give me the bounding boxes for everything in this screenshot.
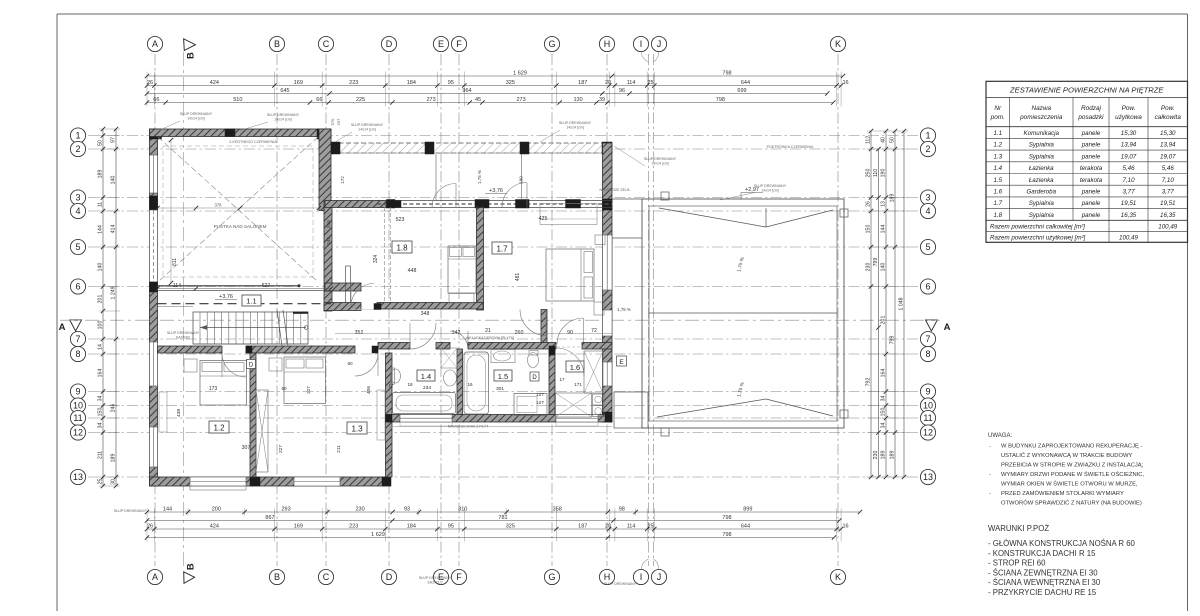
bedside table room 1.7	[594, 235, 605, 315]
wardrobe garderoba 1.6 bottom	[556, 393, 592, 417]
svg-text:189: 189	[111, 454, 117, 463]
pustka label text	[214, 224, 267, 229]
svg-text:-: -	[989, 444, 991, 450]
wall: top wall of left section	[150, 129, 332, 137]
svg-text:244: 244	[326, 237, 331, 245]
axis 2 horizontal grid line	[88, 148, 921, 150]
stairs: break line	[277, 310, 288, 346]
svg-text:50: 50	[98, 140, 104, 146]
svg-text:899: 899	[743, 506, 752, 512]
svg-text:C: C	[323, 572, 330, 582]
svg-text:425: 425	[539, 216, 548, 222]
garage downspout square bottom-left	[661, 428, 669, 436]
left vertical dimension chain 2	[111, 127, 119, 488]
svg-text:14: 14	[98, 344, 104, 350]
svg-text:1 048: 1 048	[899, 297, 905, 310]
svg-text:7: 7	[75, 334, 80, 344]
svg-text:180: 180	[519, 176, 524, 184]
room label 1.4	[417, 370, 435, 381]
svg-text:- KONSTRUKCJA DACHI R 15: - KONSTRUKCJA DACHI R 15	[988, 549, 1096, 558]
top dimension row 3	[145, 88, 830, 96]
svg-text:2: 2	[925, 144, 930, 154]
bottom dimension row 1	[145, 506, 862, 514]
garage roof top slope	[659, 208, 833, 227]
svg-text:- GŁÓWNA KONSTRUKCJA NOŚNA R 6: - GŁÓWNA KONSTRUKCJA NOŚNA R 60	[988, 539, 1136, 548]
svg-text:200: 200	[212, 506, 221, 512]
svg-text:189: 189	[890, 194, 896, 203]
svg-text:100: 100	[98, 321, 104, 330]
svg-text:- ŚCIANA ZEWNĘTRZNA EI 30: - ŚCIANA ZEWNĘTRZNA EI 30	[988, 568, 1098, 577]
room label 1.3	[347, 422, 367, 434]
svg-text:SŁUP DREWNIANY: SŁUP DREWNIANY	[167, 331, 200, 335]
marker D room 1.2 wall	[247, 360, 256, 369]
interior dim texts rooms 1.2 1.3	[176, 361, 372, 453]
svg-text:PUSTKA NAD SALONEM: PUSTKA NAD SALONEM	[214, 224, 267, 229]
notes WARUNKI P.POZ block	[988, 524, 1136, 597]
column block north band at 516	[516, 200, 530, 209]
svg-text:230: 230	[873, 451, 879, 460]
axis bubble E top	[433, 36, 448, 51]
svg-text:20: 20	[605, 80, 611, 86]
svg-text:358: 358	[553, 506, 562, 512]
svg-text:6: 6	[925, 282, 930, 292]
strip rotated labels	[340, 170, 524, 184]
svg-text:A: A	[944, 322, 951, 333]
svg-text:169: 169	[294, 523, 303, 529]
svg-text:13,94: 13,94	[1121, 142, 1137, 149]
svg-text:438: 438	[176, 409, 182, 417]
svg-text:1.8: 1.8	[993, 212, 1002, 219]
svg-text:Łazienka: Łazienka	[1029, 165, 1054, 172]
svg-text:Łazienka: Łazienka	[1029, 177, 1054, 184]
svg-text:187: 187	[578, 523, 587, 529]
column block divider 1.8/1.7 top	[477, 201, 483, 208]
axis 12 horizontal grid line	[88, 432, 921, 434]
svg-text:127: 127	[536, 400, 544, 406]
svg-text:7,10: 7,10	[1162, 177, 1175, 184]
svg-text:26: 26	[147, 523, 153, 529]
svg-text:1.6: 1.6	[993, 189, 1002, 196]
svg-text:14x14 [cm]: 14x14 [cm]	[566, 126, 584, 130]
column block east wall bottom corner	[603, 412, 613, 422]
svg-text:19,07: 19,07	[1160, 153, 1176, 160]
svg-text:50: 50	[890, 137, 896, 143]
svg-text:515: 515	[326, 220, 331, 228]
axis 8 horizontal grid line	[88, 353, 921, 355]
window: bath 1.5 bottom	[556, 415, 598, 427]
svg-text:WYMIARY DRZWI PODANE W ŚWIETLE: WYMIARY DRZWI PODANE W ŚWIETLE OŚCIEŻNIC…	[1001, 470, 1144, 478]
label +3,76 middle section	[485, 188, 507, 194]
svg-text:11: 11	[73, 413, 82, 423]
pustka interior vertical dim line	[169, 138, 173, 285]
svg-text:1.4: 1.4	[421, 372, 431, 381]
eaves line below bathroom wing	[388, 426, 612, 428]
axis bubble B bottom	[269, 569, 284, 584]
svg-text:Sypialnia: Sypialnia	[1029, 153, 1055, 160]
svg-text:144: 144	[98, 225, 104, 234]
window sill below room 1.2 window	[190, 486, 246, 490]
axis bubble F bottom	[451, 569, 466, 584]
svg-text:230: 230	[355, 506, 364, 512]
axis bubble 10 right	[920, 398, 935, 413]
svg-text:I: I	[640, 572, 643, 582]
svg-text:9: 9	[75, 387, 80, 397]
svg-text:378: 378	[215, 203, 223, 208]
svg-text:171: 171	[574, 382, 582, 387]
svg-text:140: 140	[111, 176, 117, 185]
svg-text:110: 110	[873, 169, 879, 177]
left vertical dimension chain 1	[98, 127, 106, 488]
bottom dimension row 2	[145, 515, 842, 523]
toilet bath 1.4	[391, 368, 401, 384]
svg-text:I: I	[640, 39, 643, 49]
leader curves I J bottom	[641, 559, 658, 569]
extension lines bottom dimension band	[147, 509, 841, 542]
axis 9 horizontal grid line	[88, 391, 921, 393]
svg-text:13: 13	[73, 472, 83, 482]
svg-text:B: B	[186, 563, 197, 570]
washbasin bath 1.5	[491, 350, 515, 363]
svg-text:WYMIAR OKIEN W ŚWIETLE OTWORU: WYMIAR OKIEN W ŚWIETLE OTWORU W MURZE,	[1001, 480, 1138, 488]
axis C vertical grid line	[325, 54, 327, 566]
svg-text:D: D	[532, 375, 537, 381]
svg-text:8: 8	[925, 349, 930, 359]
svg-text:19,07: 19,07	[1121, 153, 1137, 160]
svg-text:PRZEBICIA W STROPIE W ZWIĄZKU: PRZEBICIA W STROPIE W ZWIĄZKU Z INSTALAC…	[1001, 463, 1144, 469]
svg-text:201: 201	[98, 295, 104, 304]
svg-text:325: 325	[506, 80, 515, 86]
svg-text:SA2/S1/2: SA2/S1/2	[427, 581, 442, 585]
svg-text:60: 60	[347, 361, 353, 366]
svg-text:127: 127	[536, 392, 544, 398]
svg-text:1 249: 1 249	[111, 286, 117, 299]
svg-text:WARUNKI P.POŻ: WARUNKI P.POŻ	[988, 524, 1049, 533]
area table: ZESTAWIENIE POWIERZCHNI NA PIETRZE	[986, 81, 1188, 242]
svg-text:Garderoba: Garderoba	[1026, 189, 1056, 196]
desk room 1.3 east wall	[377, 390, 385, 440]
wall: glazed north band of middle section (dashed curtain wall)	[331, 143, 612, 153]
svg-text:E: E	[619, 359, 624, 366]
column block east wall axis 3-4	[603, 199, 613, 210]
column block corridor wall at 1.3 door	[372, 346, 378, 353]
axis bubble G bottom	[544, 569, 559, 584]
radiator room 1.2 west wall	[159, 392, 167, 432]
svg-text:1,75 %: 1,75 %	[617, 307, 631, 312]
wall: divider rooms 1.2 / 1.3	[250, 353, 256, 477]
svg-text:10: 10	[923, 401, 933, 411]
pustka diagonal cross line 1	[158, 137, 318, 282]
window: bottom wall room 1.3	[294, 477, 340, 486]
svg-text:pom.: pom.	[990, 114, 1005, 121]
svg-text:18: 18	[407, 382, 413, 387]
svg-text:J: J	[657, 39, 662, 49]
garage roof inner rect	[649, 206, 837, 421]
svg-text:811: 811	[172, 258, 178, 266]
axis bubble 2 right	[920, 141, 935, 156]
svg-text:273: 273	[516, 97, 525, 103]
room label 1.1	[242, 295, 261, 306]
svg-text:172: 172	[340, 176, 345, 184]
svg-text:225: 225	[356, 97, 365, 103]
svg-text:14x14 [cm]: 14x14 [cm]	[187, 117, 205, 121]
axis bubble 9 right	[920, 384, 935, 399]
sink bath 1.4	[444, 370, 457, 386]
svg-text:9: 9	[925, 387, 930, 397]
svg-text:211: 211	[98, 451, 104, 459]
svg-text:5,46: 5,46	[1122, 165, 1135, 172]
svg-text:użytkowa: użytkowa	[1115, 114, 1142, 121]
svg-text:SŁUP DREWNIANY: SŁUP DREWNIANY	[267, 113, 300, 117]
svg-text:1: 1	[925, 131, 930, 141]
svg-text:45: 45	[475, 97, 481, 103]
stairs: top-right thick edge	[293, 312, 308, 314]
svg-text:523: 523	[396, 217, 405, 223]
axis bubble 11 left	[70, 410, 85, 425]
column block top wall right corner	[317, 129, 331, 139]
svg-text:-: -	[989, 472, 991, 478]
svg-text:645: 645	[280, 88, 289, 94]
svg-text:448: 448	[408, 268, 417, 274]
svg-text:panele: panele	[1081, 189, 1101, 196]
wall: corridor south wall (bathroom wing north)	[158, 346, 223, 353]
section marker A right	[926, 320, 951, 333]
svg-text:NADPROŻE ŻELB.: NADPROŻE ŻELB.	[600, 187, 631, 192]
svg-text:352: 352	[355, 330, 364, 336]
column block divider 1.5/1.6 top	[549, 346, 555, 355]
axis bubble D top	[381, 36, 396, 51]
notes UWAGA block	[988, 433, 1144, 507]
window: east wall window room 1.6	[603, 362, 613, 386]
pustka nad salonem dashed inner rect	[163, 146, 313, 277]
svg-text:798: 798	[716, 97, 725, 103]
shelf X bath 1.4	[441, 348, 457, 368]
column block curtain wall mid2	[520, 142, 529, 154]
axis bubble 1 left	[70, 128, 85, 143]
svg-text:B: B	[186, 52, 197, 59]
axis bubble 4 left	[70, 203, 85, 218]
svg-text:Razem powierzchni całkowitej [: Razem powierzchni całkowitej [m²]	[990, 223, 1085, 230]
section marker A left	[59, 320, 82, 333]
svg-text:260: 260	[515, 330, 524, 336]
svg-text:8: 8	[75, 349, 80, 359]
axis 3 horizontal grid line	[88, 197, 921, 199]
svg-text:66: 66	[153, 97, 159, 103]
svg-text:4: 4	[75, 206, 80, 216]
svg-text:1.3: 1.3	[351, 425, 363, 434]
svg-text:293: 293	[281, 506, 290, 512]
svg-text:307: 307	[242, 445, 251, 451]
svg-text:Sypialnia: Sypialnia	[1029, 212, 1055, 219]
svg-text:C: C	[323, 39, 330, 49]
axis 4 horizontal grid line	[88, 210, 921, 212]
svg-text:terakota: terakota	[1080, 165, 1103, 172]
svg-text:1.1: 1.1	[246, 297, 256, 306]
axis B vertical grid line	[276, 54, 278, 566]
svg-text:799: 799	[873, 258, 879, 267]
window: left wall window axis 11-13	[150, 427, 158, 467]
svg-text:1.4: 1.4	[993, 165, 1002, 172]
svg-text:112: 112	[866, 136, 872, 144]
svg-text:699: 699	[737, 88, 746, 94]
axis bubble 2 left	[70, 141, 85, 156]
svg-text:150: 150	[98, 408, 104, 417]
svg-text:95: 95	[448, 523, 454, 529]
axis bubble F top	[451, 36, 466, 51]
svg-text:4: 4	[925, 206, 930, 216]
axis bubble 7 right	[920, 331, 935, 346]
stairs: treads	[200, 312, 301, 344]
svg-text:10: 10	[73, 401, 83, 411]
svg-text:- PRZYKRYCIE DACHU RE 15: - PRZYKRYCIE DACHU RE 15	[988, 588, 1097, 597]
svg-text:SŁUP DREWNIANY: SŁUP DREWNIANY	[180, 112, 213, 116]
garage downspout square top-right	[840, 209, 848, 217]
svg-text:72: 72	[591, 328, 597, 334]
interior dim texts middle	[326, 216, 612, 336]
svg-text:G: G	[548, 572, 555, 582]
axis bubble 12 left	[70, 425, 85, 440]
svg-text:SŁUP DREWNIANY: SŁUP DREWNIANY	[644, 157, 677, 161]
svg-text:14x14 [cm]: 14x14 [cm]	[274, 118, 292, 122]
top dimension row 4	[145, 97, 836, 105]
extension lines left dimension band	[99, 129, 120, 486]
bed room 1.2	[200, 361, 247, 406]
svg-text:14x14 [cm]: 14x14 [cm]	[761, 189, 779, 193]
svg-text:panele: panele	[1081, 142, 1101, 149]
svg-text:+3,76: +3,76	[219, 294, 233, 300]
svg-text:Komunikacja: Komunikacja	[1024, 130, 1060, 137]
svg-text:F: F	[456, 39, 462, 49]
axis bubble 6 right	[920, 279, 935, 294]
right vertical dimension chain 3	[881, 129, 889, 479]
slope label west terrace	[617, 307, 631, 312]
svg-text:J: J	[657, 572, 662, 582]
svg-text:130: 130	[574, 97, 583, 103]
svg-text:644: 644	[741, 80, 750, 86]
svg-text:16,35: 16,35	[1160, 212, 1176, 219]
svg-text:114: 114	[627, 523, 636, 529]
right vertical dimension chain 2	[873, 147, 881, 479]
svg-text:16: 16	[467, 382, 473, 387]
bed room 1.7	[546, 249, 594, 301]
column block bath wing east	[605, 415, 612, 423]
svg-text:25: 25	[647, 80, 653, 86]
door arc bath 1.5 entry	[450, 331, 468, 349]
axis bubble K bottom	[830, 569, 845, 584]
column block curtain wall east corner	[602, 142, 612, 154]
svg-text:93: 93	[404, 506, 410, 512]
bottom dimension row 3	[145, 523, 849, 531]
svg-text:3: 3	[75, 193, 80, 203]
column block corridor wall west	[246, 346, 252, 353]
top dimension row 2 (segment dims)	[145, 80, 849, 88]
svg-text:1.1: 1.1	[993, 130, 1002, 137]
section marker B top	[184, 39, 197, 59]
svg-text:90: 90	[567, 330, 573, 336]
svg-text:1.6: 1.6	[570, 363, 580, 372]
svg-text:227: 227	[306, 386, 311, 394]
dashed shaft lines west of room 1.8	[385, 207, 391, 309]
svg-text:184: 184	[407, 80, 416, 86]
column block bath wing west	[386, 415, 393, 423]
wall: north glazed band of rooms 1.8 / 1.7	[325, 201, 612, 208]
bottom dimension row 4 (totals)	[145, 532, 836, 540]
svg-text:164: 164	[98, 369, 104, 378]
wall: stairwell wall vertical	[324, 201, 332, 311]
garage roof outer rect	[642, 199, 844, 428]
svg-text:+3,76: +3,76	[489, 188, 503, 194]
svg-text:terakota: terakota	[1080, 177, 1103, 184]
bathtub bath 1.4	[393, 393, 456, 414]
marker E east of house	[617, 356, 627, 366]
svg-text:H: H	[604, 39, 611, 49]
svg-text:781: 781	[498, 515, 507, 521]
axis bubble H top	[599, 36, 614, 51]
svg-text:223: 223	[349, 80, 358, 86]
bathtub bath 1.5	[464, 352, 489, 414]
stairs: outline	[193, 312, 308, 344]
svg-text:34: 34	[881, 396, 887, 402]
door arc room 1.7 entry	[520, 310, 546, 336]
svg-text:F: F	[456, 572, 462, 582]
svg-text:189: 189	[890, 451, 896, 460]
svg-text:16,35: 16,35	[1121, 212, 1137, 219]
svg-text:100,49: 100,49	[1158, 223, 1177, 230]
axis bubble 6 left	[70, 279, 85, 294]
svg-text:5: 5	[925, 242, 930, 252]
wall: south wall of rooms 1.8 / 1.7 (corridor north)	[377, 303, 483, 310]
svg-text:G: G	[548, 39, 555, 49]
svg-text:34: 34	[881, 423, 887, 429]
corridor guard dashed line	[158, 303, 332, 305]
leader lines for top annotations	[160, 121, 755, 200]
leader curves I J top	[641, 52, 658, 62]
svg-text:15,30: 15,30	[1121, 130, 1137, 137]
section line B-B vertical	[183, 52, 185, 570]
svg-text:19,51: 19,51	[1160, 200, 1175, 207]
axis bubble 13 left	[70, 469, 85, 484]
garage label +2,97	[741, 187, 763, 199]
extension lines top dimension band	[147, 72, 841, 107]
axis bubble H bottom	[599, 569, 614, 584]
column block top wall mid	[225, 129, 235, 137]
shower tray bath 1.5	[514, 394, 547, 416]
svg-text:150: 150	[881, 408, 887, 417]
closet row room 1.7 north	[540, 204, 597, 225]
right vertical dimension chain 4	[890, 129, 898, 479]
stairs: walk line with arrow	[200, 325, 308, 330]
svg-text:310: 310	[458, 506, 467, 512]
wall: short wall west of room 1.8	[346, 266, 351, 310]
label +3,76 corridor	[215, 294, 237, 300]
svg-text:UWAGA:: UWAGA:	[988, 433, 1012, 439]
svg-text:SŁUP DREWNIANY: SŁUP DREWNIANY	[419, 576, 452, 580]
column block left wall bottom	[150, 477, 160, 486]
column block left wall axis 6	[150, 282, 158, 292]
svg-text:7,10: 7,10	[1122, 177, 1135, 184]
svg-text:Pow.: Pow.	[1122, 105, 1136, 112]
svg-text:60: 60	[281, 386, 287, 391]
axis bubble 4 right	[920, 203, 935, 218]
svg-text:Nazwa: Nazwa	[1031, 105, 1051, 112]
room label 1.6	[566, 361, 584, 372]
svg-text:424: 424	[210, 80, 219, 86]
svg-text:20: 20	[605, 523, 611, 529]
wardrobe garderoba 1.6 right	[584, 351, 603, 393]
svg-text:5: 5	[75, 242, 80, 252]
column block north band divider top	[475, 200, 489, 209]
svg-text:798: 798	[722, 532, 731, 538]
svg-text:2: 2	[75, 144, 80, 154]
